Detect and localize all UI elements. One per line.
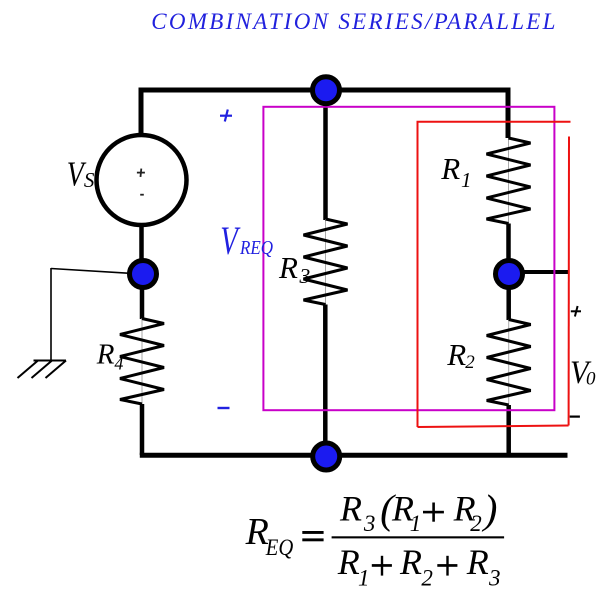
wire: Vs bottom to node A [139, 224, 144, 274]
svg-text:COMBINATION SERIES/PARALLEL: COMBINATION SERIES/PARALLEL [151, 9, 557, 34]
node A (below VS) [130, 261, 157, 288]
svg-text:3: 3 [299, 264, 311, 288]
resistor R1 body [508, 138, 510, 224]
wire: thin ground drop [50, 268, 52, 361]
node bottom [313, 443, 340, 470]
rect VREQ magenta box [263, 107, 554, 410]
svg-text:R: R [337, 542, 360, 582]
wire: node B stub to right [509, 270, 569, 274]
svg-text:2: 2 [470, 511, 482, 536]
svg-text:1: 1 [358, 565, 370, 590]
resistor R2 body [508, 320, 510, 406]
VS internal - [140, 194, 144, 196]
wire: node A to R4 top [140, 274, 145, 319]
svg-text:R: R [440, 151, 460, 186]
svg-text:2: 2 [465, 352, 475, 373]
label + (VREQ polarity top, blue) [220, 110, 232, 122]
formula equals sign [302, 531, 323, 534]
label + (V0 polarity top, black) [571, 306, 581, 317]
svg-text:1: 1 [410, 511, 422, 536]
svg-text:4: 4 [114, 354, 123, 374]
ground [18, 361, 67, 379]
formula fraction bar [332, 536, 505, 538]
svg-text:3: 3 [488, 565, 501, 590]
svg-text:1: 1 [461, 168, 472, 192]
wire: R3 bottom to bottom node [323, 305, 328, 457]
wire: R1 bottom to node B [506, 224, 511, 275]
svg-text:): ) [482, 486, 498, 532]
label - (VREQ polarity bottom, blue) [218, 407, 230, 409]
svg-text:REQ: REQ [239, 237, 273, 259]
wire: bottom bus [140, 453, 568, 458]
svg-text:R: R [446, 337, 466, 372]
resistor R3 body [325, 219, 327, 305]
wire: top bus from left corner to right corner [141, 90, 508, 138]
svg-text:R: R [339, 489, 362, 529]
svg-text:R: R [96, 339, 115, 371]
label - (V0 polarity bottom, black) [570, 416, 580, 418]
svg-text:2: 2 [421, 565, 433, 590]
svg-text:R: R [278, 250, 298, 285]
svg-text:V: V [220, 218, 241, 263]
svg-text:EQ: EQ [265, 535, 294, 560]
wire: R4 bottom to bottom bus [140, 404, 145, 455]
svg-text:R: R [399, 542, 422, 582]
voltage source VS circle [97, 135, 187, 225]
svg-text:R: R [466, 542, 489, 582]
wire: top node to R3 [323, 90, 328, 220]
svg-text:S: S [84, 168, 95, 192]
wire: R2 bottom to bottom bus [506, 405, 511, 455]
svg-text:3: 3 [363, 511, 376, 536]
wire: thin lead node A to ground drop [51, 269, 141, 275]
wire: node B to R2 top [506, 274, 511, 320]
VS internal + [137, 169, 145, 177]
node B (between R1 R2) [496, 261, 523, 288]
resistor R4 body [141, 318, 143, 404]
node top [313, 77, 340, 104]
rect V0 red box [418, 122, 571, 427]
svg-text:0: 0 [586, 369, 596, 390]
